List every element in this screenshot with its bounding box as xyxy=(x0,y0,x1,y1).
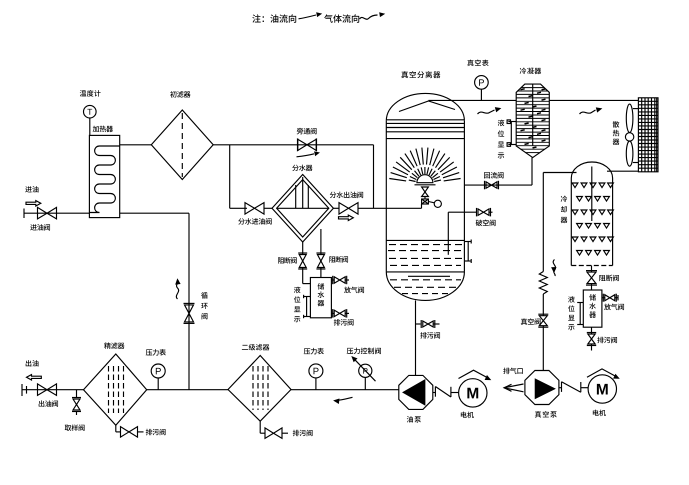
water separator outer diamond xyxy=(272,175,333,243)
vessel left wall xyxy=(385,121,387,272)
wire heater bottom to circulation junction xyxy=(120,212,189,214)
heater body xyxy=(89,135,119,217)
valve 回流阀 xyxy=(485,181,499,190)
label 阻断阀 left xyxy=(278,257,297,264)
label radiator 散热器 xyxy=(613,121,620,145)
label 电机 vacuum xyxy=(593,410,606,416)
heater coil xyxy=(89,146,119,213)
wire condensate return xyxy=(464,184,532,186)
thermometer T gauge xyxy=(84,105,97,135)
oil outlet end cap xyxy=(22,384,27,396)
gas flow legend arrow xyxy=(360,13,384,19)
pressure control valve xyxy=(352,357,375,390)
label bypass valve 旁通阀 xyxy=(297,128,317,135)
wire to tank1 top xyxy=(320,268,322,278)
label 排污阀 second filter xyxy=(293,430,313,437)
radiator fan blades xyxy=(626,104,633,166)
vacuum motor xyxy=(588,375,616,403)
valve 阻断阀 left xyxy=(298,253,307,269)
label oil outlet 出油 xyxy=(26,360,39,366)
label 电机 oil xyxy=(461,412,474,418)
valve 排污阀 vessel xyxy=(416,320,440,328)
gas squiggle arrow 2 xyxy=(580,108,602,114)
pressure gauge 1 xyxy=(151,364,165,390)
label 进油阀 xyxy=(30,224,50,230)
wire separator bottom drop xyxy=(302,242,304,255)
wire cooler to blocking valve xyxy=(591,266,593,272)
wire first filter to bypass line xyxy=(213,144,373,146)
oil flow legend arrow xyxy=(299,13,321,19)
bypass oil flow arrow xyxy=(297,152,319,157)
wire radiator to cooler xyxy=(607,170,638,172)
label 排污阀 vessel xyxy=(420,332,440,339)
arrow after 分水出油阀 xyxy=(339,215,354,220)
label 破空阀 xyxy=(476,220,496,227)
float ball link xyxy=(428,202,434,203)
valve 排污阀 tank1 xyxy=(331,309,349,318)
label 液位显示 tank2 xyxy=(568,296,575,330)
label second filter 二级滤器 xyxy=(242,344,269,351)
wire outlet pipe xyxy=(22,389,84,391)
vessel tray lines xyxy=(386,120,464,139)
radiator fan frame links xyxy=(633,109,639,163)
label 排污阀 tank1 xyxy=(334,319,354,326)
wire cooler to vacuum line xyxy=(543,172,576,174)
pressure gauge 2 xyxy=(309,364,323,390)
wire vacuum line lower xyxy=(542,326,544,371)
label 储水器 tank1 xyxy=(318,283,325,306)
oil pump coupling xyxy=(433,387,459,398)
condenser center line xyxy=(532,84,534,146)
label 真空阀 xyxy=(521,318,541,325)
wire vacuum line mid xyxy=(542,294,544,316)
vessel top dome xyxy=(386,93,464,120)
vessel right wall xyxy=(463,121,465,272)
vacuum pump coupling xyxy=(559,382,588,393)
gas squiggle arrow 1 xyxy=(478,108,501,114)
valve 真空阀 xyxy=(538,314,548,327)
circulation flow squiggle arrow xyxy=(176,280,180,299)
oil motor hat xyxy=(459,370,491,379)
label 液位显示 tank1 xyxy=(294,287,301,323)
label heater 加热器 xyxy=(93,126,113,133)
label 放气阀 tank1 xyxy=(344,287,364,294)
label 分水进油阀 xyxy=(238,218,271,225)
wire vessel to oil pump xyxy=(415,300,417,375)
condenser level gauge xyxy=(507,120,516,146)
oil pump rotor triangle xyxy=(403,380,425,405)
tank1 level gauge xyxy=(304,295,311,318)
vessel bottom dome xyxy=(386,272,464,301)
spray nozzle funnel xyxy=(422,187,429,197)
label 回流阀 xyxy=(484,172,504,179)
valve 分水出油阀 xyxy=(333,203,386,215)
label 排污阀 fine filter xyxy=(146,429,166,436)
wire bypass down to vessel inlet line xyxy=(373,145,375,209)
second filter diamond xyxy=(228,356,291,422)
first filter diamond xyxy=(151,110,213,180)
float ball xyxy=(434,200,441,207)
valve 阻断阀 right xyxy=(316,253,325,269)
oil inlet end cap xyxy=(23,209,25,219)
wire main line mid xyxy=(147,389,228,391)
tank2 level gauge xyxy=(577,303,583,325)
water separator element lines xyxy=(296,177,309,208)
fine filter diamond xyxy=(84,354,147,425)
second filter elements xyxy=(253,366,268,410)
label 分水出油阀 xyxy=(330,192,363,199)
oil pump body xyxy=(399,375,433,409)
valve 排污阀 fine filter xyxy=(116,425,144,437)
cooler packing triangles xyxy=(572,183,613,255)
vacuum pump body xyxy=(525,371,559,405)
vessel liquid surface xyxy=(386,239,464,241)
water separator center pipe line xyxy=(277,207,329,209)
label 排气口 xyxy=(503,368,523,375)
condenser body xyxy=(516,84,549,158)
valve 进油阀 xyxy=(38,207,57,219)
cooler body xyxy=(571,162,612,266)
label water separator 分水器 xyxy=(292,165,312,172)
label 真空泵 xyxy=(535,411,557,418)
label 出油阀 xyxy=(39,400,58,406)
wire to tank2 xyxy=(591,284,593,290)
water tank 储水器 xyxy=(310,278,331,318)
valve 放气阀 tank2 xyxy=(602,294,618,302)
valve 破空阀 xyxy=(477,208,493,217)
label 阻断阀 right xyxy=(329,256,348,263)
valve 放气阀 tank1 xyxy=(331,276,349,284)
valve 循环阀 xyxy=(184,303,195,323)
water tank 2 储水器 xyxy=(583,290,602,327)
vessel body bottom line xyxy=(386,271,464,273)
exhaust port arrow xyxy=(504,384,524,392)
label vacuum separator 真空分离器 xyxy=(401,71,440,78)
label 取样阀 xyxy=(65,424,85,431)
label condenser 冷凝器 xyxy=(520,68,541,75)
label 阻断阀 cooler xyxy=(599,275,618,282)
wire vessel inlet line xyxy=(386,207,421,209)
wire condenser to radiator gas line xyxy=(549,99,638,101)
wire circulation vertical xyxy=(188,213,190,390)
title note: oil flow legend xyxy=(252,14,296,22)
vacuum motor hat xyxy=(587,369,619,378)
wire junction down to water separator inlet xyxy=(230,145,245,209)
vacuum pump rotor triangle xyxy=(535,379,554,398)
spray nozzle dome xyxy=(415,175,436,185)
valve 阻断阀 cooler xyxy=(586,271,597,286)
label cooler 冷却器 xyxy=(561,196,568,224)
radiator fan hub xyxy=(625,133,633,141)
valve 排污阀 tank2 xyxy=(587,327,596,350)
oil inlet arrow xyxy=(26,201,41,206)
radiator core grid xyxy=(638,98,658,172)
label 油泵 xyxy=(407,416,421,422)
float inlet stub xyxy=(421,204,423,208)
vessel level gauge xyxy=(464,240,471,264)
valve 旁通阀 xyxy=(298,139,317,152)
label first filter 初滤器 xyxy=(170,91,190,98)
wire vessel to condenser gas line xyxy=(429,99,517,101)
oil inlet pipe xyxy=(24,212,89,214)
first filter element dashed line xyxy=(181,113,183,177)
label 液位显示 condenser xyxy=(498,120,505,159)
main line flow arrow xyxy=(335,397,353,403)
label thermometer 温度计 xyxy=(80,90,101,97)
fine filter elements xyxy=(109,366,124,413)
valve 出油阀 xyxy=(38,384,57,396)
vessel dome baffle xyxy=(399,101,455,112)
vessel liquid dashes xyxy=(388,245,463,266)
label 循环阀 xyxy=(201,292,208,319)
float valve body xyxy=(422,197,429,205)
label oil inlet 进油 xyxy=(25,186,38,192)
label 排污阀 tank2 xyxy=(597,337,617,344)
label 压力表 2 xyxy=(304,348,324,355)
oil motor xyxy=(459,379,487,407)
vacuum break dip tube xyxy=(448,212,476,255)
vacuum gauge xyxy=(475,76,489,101)
wire condenser drop xyxy=(531,158,533,186)
oil outlet arrow xyxy=(27,375,42,380)
vacuum line spring xyxy=(539,272,547,295)
wire separator right drop xyxy=(320,229,322,255)
cooler center line xyxy=(591,167,593,222)
gas squiggle arrow 3 xyxy=(552,260,556,277)
label 压力控制阀 xyxy=(347,348,381,355)
wire main line right xyxy=(291,389,399,391)
label 储水器 tank2 xyxy=(589,294,596,318)
label 压力表 1 xyxy=(146,349,166,356)
valve 取样阀 xyxy=(72,390,81,415)
label 真空表 xyxy=(467,60,488,67)
vessel spray sunburst xyxy=(389,148,460,182)
title note: gas flow legend xyxy=(324,14,359,22)
wire vacuum line upper xyxy=(542,173,544,272)
wire to tank1 left xyxy=(303,268,311,284)
bottom dome liquid xyxy=(390,276,461,293)
valve 排污阀 second filter xyxy=(260,421,288,438)
valve 分水进油阀 xyxy=(245,203,272,215)
condenser coil lines xyxy=(516,88,549,153)
water separator inner diamond xyxy=(277,180,329,237)
label fine filter 精滤器 xyxy=(104,342,124,349)
label 放气阀 tank2 xyxy=(604,304,624,311)
wire heater top to first filter xyxy=(120,144,152,146)
